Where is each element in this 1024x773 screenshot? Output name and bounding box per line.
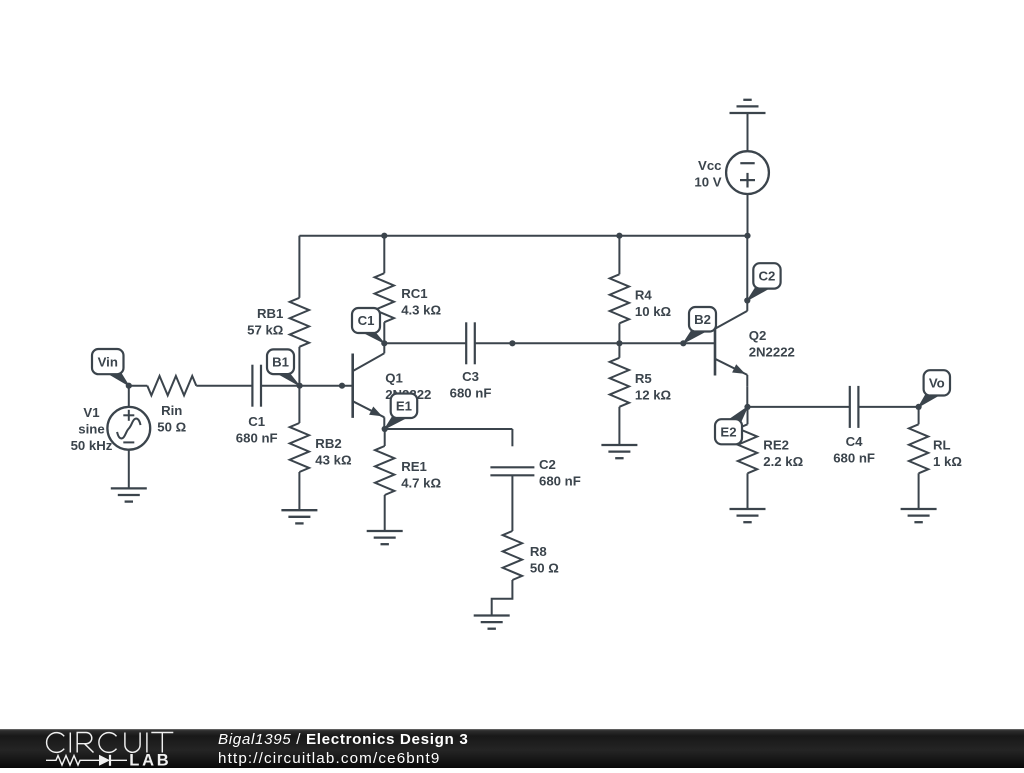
svg-text:RE2: RE2 <box>763 437 789 452</box>
transistor Q1 2N2222 <box>353 343 385 429</box>
ground V1 <box>111 488 147 501</box>
svg-text:RE1: RE1 <box>401 459 427 474</box>
ground RE1 <box>367 531 403 544</box>
transistor Q2 2N2222 <box>715 301 747 387</box>
resistor RE1 <box>375 429 394 531</box>
wire E1-C2 <box>385 428 513 430</box>
svg-text:43 kΩ: 43 kΩ <box>315 453 352 468</box>
ground RL <box>901 509 937 522</box>
svg-text:680 nF: 680 nF <box>236 431 278 446</box>
junction C2 node <box>744 297 750 303</box>
svg-text:57 kΩ: 57 kΩ <box>247 323 284 338</box>
wire top rail <box>299 235 747 237</box>
label C1 value <box>236 414 278 446</box>
svg-text:RC1: RC1 <box>401 286 427 301</box>
footer bar <box>0 729 1024 768</box>
svg-text:Rin: Rin <box>161 403 182 418</box>
svg-text:680 nF: 680 nF <box>833 451 875 466</box>
label RE1 value <box>401 459 441 491</box>
label Rin value <box>157 403 186 435</box>
resistor Rin <box>147 376 196 395</box>
svg-text:50 Ω: 50 Ω <box>530 561 559 576</box>
junction B1 node <box>297 383 303 389</box>
junction V1-Rin <box>126 383 132 389</box>
ground RB2 <box>281 510 317 523</box>
resistor RL <box>909 407 928 509</box>
label Q2 value <box>749 328 795 360</box>
junction R4-rail <box>616 233 622 239</box>
svg-text:Q1: Q1 <box>385 371 403 386</box>
ground R5 <box>601 445 637 458</box>
svg-text:B1: B1 <box>272 354 289 369</box>
wire Q2E-junction <box>746 387 748 407</box>
svg-text:sine: sine <box>78 422 104 437</box>
wire Vcc-gnd <box>747 113 749 151</box>
wire corner-C2 <box>511 429 513 446</box>
node flag Vin <box>92 349 129 386</box>
CircuitLab logo <box>0 726 200 768</box>
capacitor C2 <box>490 467 534 475</box>
svg-text:2.2 kΩ: 2.2 kΩ <box>763 454 803 469</box>
svg-text:680 nF: 680 nF <box>450 385 492 400</box>
svg-text:Vcc: Vcc <box>698 158 721 173</box>
svg-text:4.3 kΩ: 4.3 kΩ <box>401 303 441 318</box>
resistor RB1 <box>290 236 309 386</box>
svg-text:Vo: Vo <box>929 376 945 391</box>
svg-text:R4: R4 <box>635 287 653 302</box>
source Vcc <box>726 151 769 194</box>
node flag E1 <box>385 394 418 430</box>
label Vcc value <box>694 158 721 190</box>
label Q1 value <box>385 371 431 403</box>
svg-text:RB1: RB1 <box>257 306 283 321</box>
label R8 value <box>530 544 559 576</box>
svg-text:R5: R5 <box>635 371 652 386</box>
junction base wire <box>339 383 345 389</box>
label C2 value <box>539 457 581 489</box>
label RC1 value <box>401 286 441 318</box>
junction Vo node <box>916 404 922 410</box>
wire Q2C-rail <box>746 236 748 301</box>
label V1 value <box>71 405 113 453</box>
svg-text:E1: E1 <box>396 398 412 413</box>
resistor R4 <box>610 236 629 344</box>
svg-text:RL: RL <box>933 437 951 452</box>
node flag B1 <box>267 349 299 385</box>
junction R4-R5 <box>616 340 622 346</box>
wire V1-top <box>128 386 130 407</box>
wire V1-Rin <box>129 385 148 387</box>
junction RC1-rail <box>381 233 387 239</box>
node flag B2 <box>683 307 716 343</box>
junction E1 node <box>382 426 388 432</box>
wire E2-C4 <box>748 406 850 408</box>
capacitor C1 <box>252 365 261 407</box>
wire R8-gnd <box>492 580 513 616</box>
label RE2 value <box>763 437 803 469</box>
svg-text:10 V: 10 V <box>694 174 721 189</box>
svg-text:12 kΩ: 12 kΩ <box>635 387 672 402</box>
wire C2-R8 <box>511 475 513 531</box>
junction E2 node <box>744 404 750 410</box>
label R4 value <box>635 287 672 319</box>
node flag C2 <box>747 263 780 300</box>
svg-text:Vin: Vin <box>98 354 118 369</box>
source V1 <box>107 407 150 450</box>
svg-text:E2: E2 <box>720 424 736 439</box>
ground Vcc <box>730 100 766 113</box>
svg-text:B2: B2 <box>694 312 711 327</box>
label RB2 value <box>315 436 352 468</box>
svg-text:680 nF: 680 nF <box>539 474 581 489</box>
svg-text:C2: C2 <box>539 457 556 472</box>
label RL value <box>933 437 962 469</box>
wire Rin-C1 <box>196 385 252 387</box>
node flag Vo <box>919 370 950 407</box>
svg-text:LAB: LAB <box>129 752 171 769</box>
wire C3-Q2base <box>475 342 715 344</box>
svg-text:50 Ω: 50 Ω <box>157 420 186 435</box>
wire C4-Vo <box>858 406 918 408</box>
label RB1 value <box>247 306 284 338</box>
wire C1-Q1base <box>261 385 353 387</box>
junction C1 node <box>381 340 387 346</box>
svg-text:4.7 kΩ: 4.7 kΩ <box>401 476 441 491</box>
svg-text:R8: R8 <box>530 544 547 559</box>
node flag C1 <box>352 308 384 343</box>
svg-text:2N2222: 2N2222 <box>749 345 795 360</box>
junction C3 wire <box>509 340 515 346</box>
svg-text:C3: C3 <box>462 369 479 384</box>
svg-text:Q2: Q2 <box>749 328 767 343</box>
resistor R5 <box>610 343 629 445</box>
svg-text:C1: C1 <box>358 313 375 328</box>
resistor RB2 <box>290 386 309 511</box>
wire Vcc-rail <box>747 194 749 236</box>
wire Q1C-C3 <box>384 342 466 344</box>
ground R8 <box>474 616 510 629</box>
svg-text:50 kHz: 50 kHz <box>71 438 113 453</box>
capacitor C4 <box>850 386 859 428</box>
node flag E2 <box>715 407 748 444</box>
ground RE2 <box>730 509 766 522</box>
svg-text:C4: C4 <box>846 434 864 449</box>
junction Vcc-rail <box>744 233 750 239</box>
svg-text:10 kΩ: 10 kΩ <box>635 304 672 319</box>
label R5 value <box>635 371 672 403</box>
capacitor C3 <box>466 322 475 364</box>
resistor R8 <box>503 531 522 580</box>
label C3 value <box>450 369 492 401</box>
svg-text:C2: C2 <box>759 269 776 284</box>
svg-text:V1: V1 <box>83 405 99 420</box>
svg-text:C1: C1 <box>248 414 265 429</box>
junction B2 node <box>680 340 686 346</box>
svg-text:RB2: RB2 <box>315 436 341 451</box>
wire V1-gnd <box>128 450 130 489</box>
svg-text:1 kΩ: 1 kΩ <box>933 454 962 469</box>
resistor RE2 <box>738 407 757 509</box>
resistor RC1 <box>375 236 394 344</box>
label C4 value <box>833 434 875 466</box>
